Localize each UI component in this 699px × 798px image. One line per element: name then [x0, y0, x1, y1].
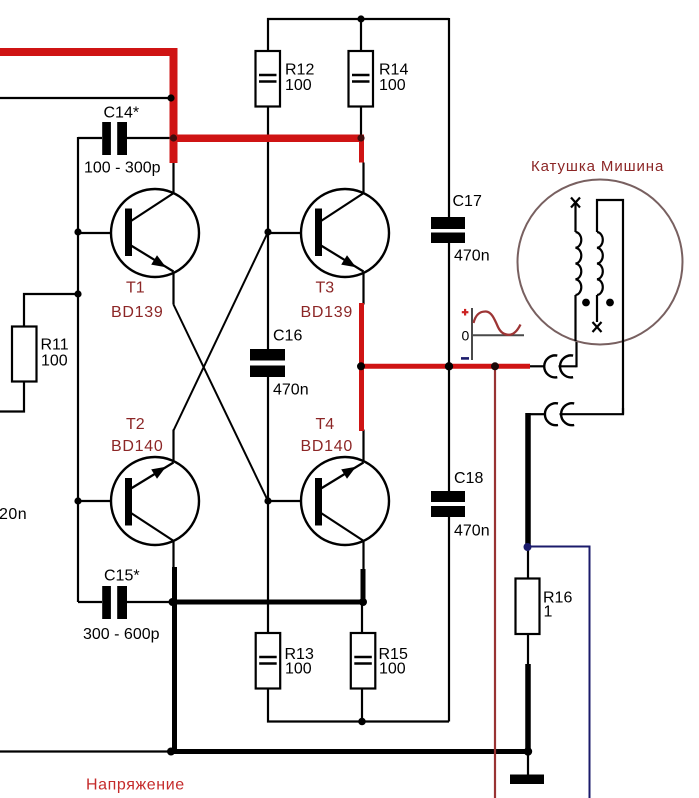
svg-text:T4: T4 [316, 416, 335, 433]
svg-text:BD139: BD139 [301, 304, 353, 321]
svg-text:T1: T1 [126, 280, 145, 297]
svg-text:Катушка Мишина: Катушка Мишина [531, 158, 664, 175]
svg-text:100: 100 [285, 77, 312, 94]
svg-text:Напряжение: Напряжение [86, 777, 185, 794]
svg-text:T2: T2 [126, 416, 145, 433]
svg-text:C16: C16 [273, 327, 302, 344]
svg-text:BD140: BD140 [111, 438, 163, 455]
svg-text:20n: 20n [0, 506, 27, 523]
svg-text:1: 1 [544, 604, 553, 621]
svg-text:0: 0 [462, 328, 470, 344]
svg-text:R11: R11 [41, 337, 69, 354]
svg-text:300 - 600p: 300 - 600p [83, 626, 160, 643]
svg-text:R14: R14 [379, 62, 408, 79]
svg-text:470n: 470n [454, 248, 490, 265]
svg-text:100: 100 [379, 77, 406, 94]
svg-text:T3: T3 [316, 280, 335, 297]
svg-text:BD140: BD140 [301, 438, 353, 455]
svg-text:100: 100 [285, 661, 312, 678]
svg-text:100: 100 [379, 661, 406, 678]
svg-text:100 - 300p: 100 - 300p [84, 160, 161, 177]
svg-text:BD139: BD139 [111, 304, 163, 321]
svg-text:C18: C18 [454, 470, 483, 487]
svg-text:R12: R12 [285, 62, 314, 79]
svg-text:100: 100 [41, 353, 68, 370]
svg-text:470n: 470n [454, 523, 490, 540]
svg-text:C14*: C14* [104, 105, 140, 122]
svg-text:C15*: C15* [104, 568, 140, 585]
svg-text:C17: C17 [453, 193, 482, 210]
svg-text:470n: 470n [273, 381, 309, 398]
